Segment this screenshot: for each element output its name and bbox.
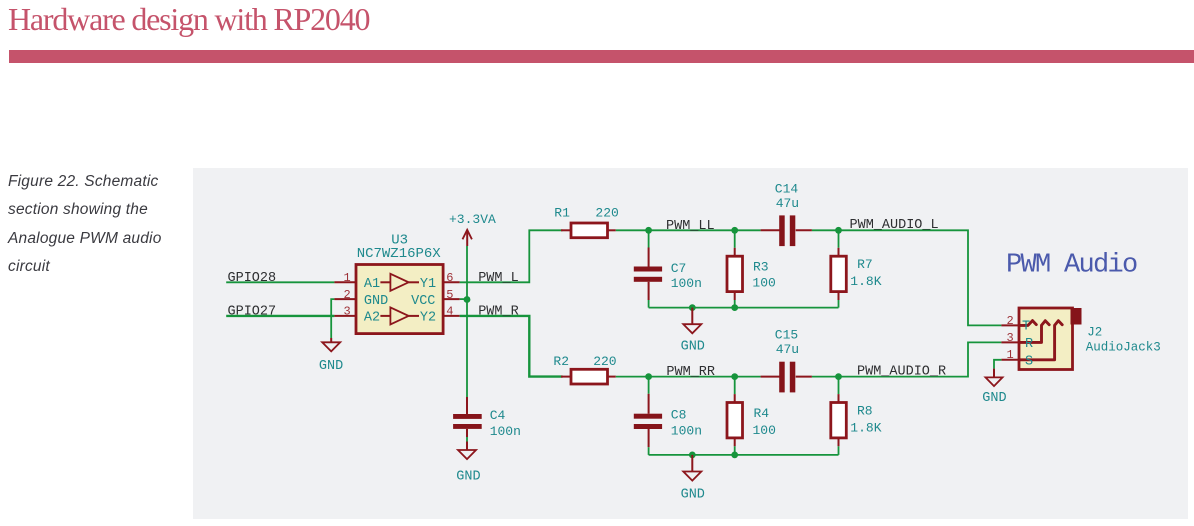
wire +3.3VA down to C4 [466, 246, 468, 397]
junction rail GND stem [689, 304, 696, 311]
junction R7 top [835, 227, 842, 234]
svg-text:220: 220 [595, 206, 618, 221]
pink rule bar [9, 50, 1194, 63]
wire C4 to ground [466, 437, 468, 442]
junction rail R3 bottom [731, 304, 738, 311]
resistor R2 [553, 354, 616, 384]
op-amp U3 body [356, 265, 443, 334]
ground under U3 pin2 [319, 338, 343, 374]
wire C15 to riser up to jack pin3 [812, 342, 1002, 376]
svg-text:PWM_RR: PWM_RR [666, 365, 715, 380]
svg-text:GPIO27: GPIO27 [228, 304, 277, 319]
svg-text:4: 4 [446, 305, 453, 319]
svg-text:GND: GND [982, 391, 1006, 406]
svg-text:R: R [1025, 337, 1033, 352]
svg-text:R8: R8 [857, 403, 873, 418]
svg-text:R1: R1 [554, 206, 570, 221]
resistor R4 [727, 377, 776, 455]
junction C8 top [645, 373, 652, 380]
wire jack pin1 to ground [994, 360, 1001, 369]
resistor R8 [831, 377, 882, 455]
svg-text:47u: 47u [776, 196, 799, 211]
svg-text:T: T [1022, 320, 1030, 335]
capacitor C14 [761, 181, 812, 246]
svg-text:C4: C4 [490, 408, 506, 423]
svg-text:A2: A2 [364, 311, 380, 326]
ground at jack [982, 369, 1006, 406]
wire R2 to C15 [616, 376, 761, 378]
wire ground rail top group [649, 307, 839, 309]
svg-text:100: 100 [752, 276, 775, 291]
wire C14 to riser [812, 230, 1002, 325]
wire ground rail bottom group [649, 454, 839, 456]
resistor R7 [831, 230, 882, 307]
capacitor C4 [453, 397, 521, 439]
svg-text:R4: R4 [754, 406, 770, 421]
svg-text:PWM_LL: PWM_LL [666, 219, 715, 234]
svg-text:VCC: VCC [411, 294, 435, 309]
svg-text:1: 1 [344, 271, 351, 285]
capacitor C15 [761, 327, 812, 392]
wire GPIO28 to pin1 [226, 281, 334, 283]
svg-text:AudioJack3: AudioJack3 [1086, 341, 1161, 355]
svg-text:PWM_AUDIO_L: PWM_AUDIO_L [850, 218, 939, 233]
wire R1 to C14 [616, 229, 761, 231]
svg-text:100n: 100n [490, 424, 521, 439]
junction C7 top [645, 227, 652, 234]
svg-text:100: 100 [753, 423, 776, 438]
svg-text:6: 6 [446, 271, 453, 285]
svg-text:GND: GND [364, 294, 388, 309]
wire PWM_R from pin4 down to R2 [460, 316, 563, 377]
svg-text:C8: C8 [671, 408, 687, 423]
connector J2 body [1019, 308, 1073, 370]
svg-text:2: 2 [1007, 314, 1014, 328]
svg-text:GND: GND [456, 470, 480, 485]
wire pin2 to ground [331, 299, 334, 338]
wire PWM_L from pin6 up to R1 [460, 230, 563, 282]
resistor R1 [554, 206, 619, 238]
svg-text:PWM_L: PWM_L [478, 271, 519, 286]
svg-text:J2: J2 [1087, 325, 1102, 339]
figure caption [8, 168, 188, 282]
svg-text:GPIO28: GPIO28 [228, 271, 277, 286]
ground under C4 [456, 442, 480, 485]
page title [8, 1, 369, 38]
J2 tip contact [1019, 321, 1036, 326]
svg-text:GND: GND [319, 359, 343, 374]
capacitor C7 [634, 230, 702, 307]
J2 ring contact [1019, 321, 1049, 343]
junction rail2 R4 bottom [731, 452, 738, 459]
svg-text:C14: C14 [775, 181, 799, 196]
svg-text:C15: C15 [775, 327, 798, 342]
resistor R3 [727, 230, 776, 307]
U3 buffer triangle 2 [380, 315, 390, 317]
power +3.3VA [449, 212, 496, 246]
schematic background [193, 168, 1188, 519]
svg-text:100n: 100n [671, 424, 702, 439]
svg-text:3: 3 [344, 305, 351, 319]
junction R3 top [731, 227, 738, 234]
svg-text:C7: C7 [671, 261, 687, 276]
svg-text:R2: R2 [553, 354, 569, 369]
svg-text:PWM_AUDIO_R: PWM_AUDIO_R [857, 364, 946, 379]
svg-text:A1: A1 [364, 277, 380, 292]
svg-text:2: 2 [344, 288, 351, 302]
svg-text:R3: R3 [753, 260, 769, 275]
U3 pin stubs right [443, 281, 460, 283]
J2 sleeve block [1071, 308, 1082, 325]
svg-text:NC7WZ16P6X: NC7WZ16P6X [357, 246, 442, 262]
svg-text:S: S [1025, 354, 1033, 369]
svg-text:1.8K: 1.8K [850, 274, 881, 289]
svg-text:47u: 47u [776, 342, 799, 357]
J2 pin stubs [1001, 324, 1019, 326]
junction R8 top [835, 373, 842, 380]
svg-text:1.8K: 1.8K [850, 420, 881, 435]
junction VCC [464, 296, 471, 303]
capacitor C8 [634, 377, 702, 455]
wire GPIO27 to pin3 [226, 315, 334, 317]
svg-text:5: 5 [446, 288, 453, 302]
svg-text:100n: 100n [671, 276, 702, 291]
svg-text:220: 220 [593, 354, 616, 369]
svg-text:PWM_R: PWM_R [478, 304, 519, 319]
junction R4 top [731, 373, 738, 380]
svg-text:1: 1 [1007, 348, 1014, 362]
U3 pin stubs left [334, 281, 356, 283]
junction rail2 GND stem [689, 452, 696, 459]
svg-text:3: 3 [1007, 331, 1014, 345]
svg-text:PWM Audio: PWM Audio [1006, 251, 1137, 281]
J2 sleeve contact [1019, 321, 1062, 360]
svg-text:Y2: Y2 [420, 311, 436, 326]
ground top group [681, 308, 705, 355]
svg-text:Y1: Y1 [420, 277, 436, 292]
svg-text:R7: R7 [857, 257, 873, 272]
svg-text:+3.3VA: +3.3VA [449, 212, 496, 227]
ground bottom group [681, 455, 705, 503]
U3 buffer triangle 1 [380, 281, 390, 283]
svg-text:GND: GND [681, 488, 705, 503]
svg-text:GND: GND [681, 340, 705, 355]
